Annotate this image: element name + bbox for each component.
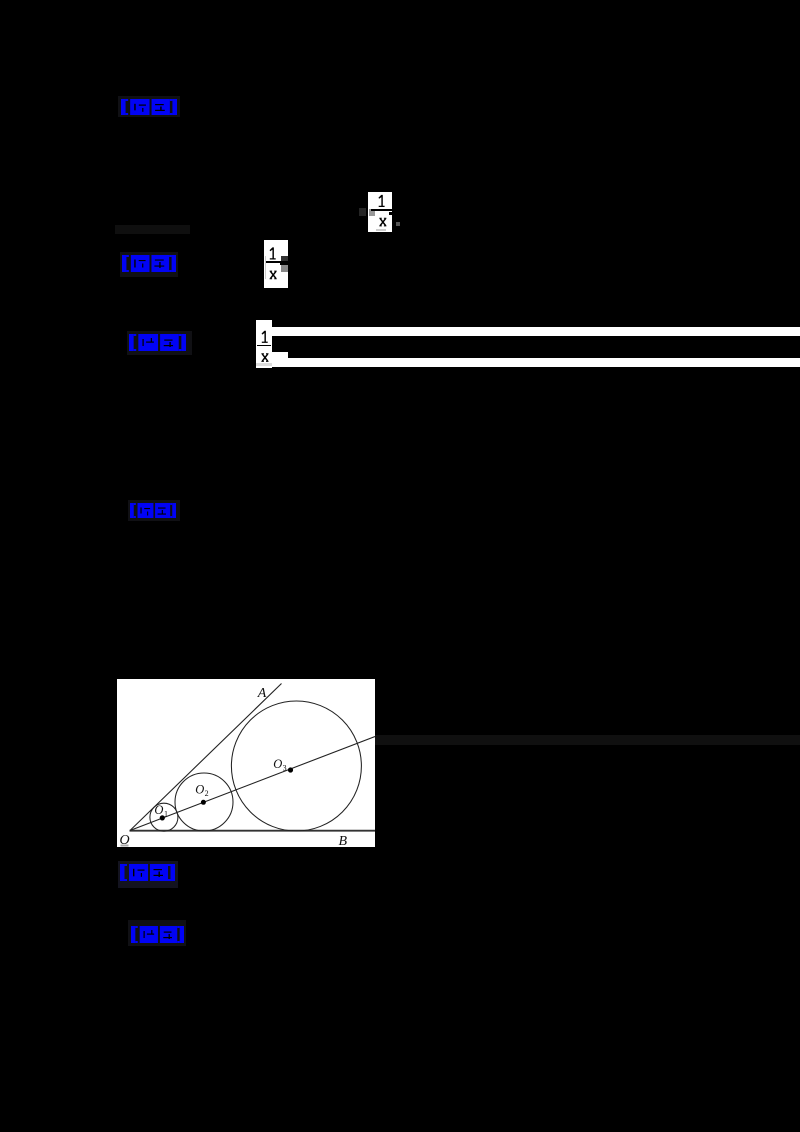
svg-text:1: 1 bbox=[164, 809, 168, 818]
svg-text:3: 3 bbox=[283, 764, 287, 773]
svg-text:O: O bbox=[273, 757, 282, 771]
svg-text:O: O bbox=[154, 803, 163, 817]
svg-text:2: 2 bbox=[205, 789, 209, 798]
svg-text:B: B bbox=[339, 834, 348, 847]
svg-text:O: O bbox=[195, 783, 204, 797]
svg-text:A: A bbox=[257, 686, 267, 701]
